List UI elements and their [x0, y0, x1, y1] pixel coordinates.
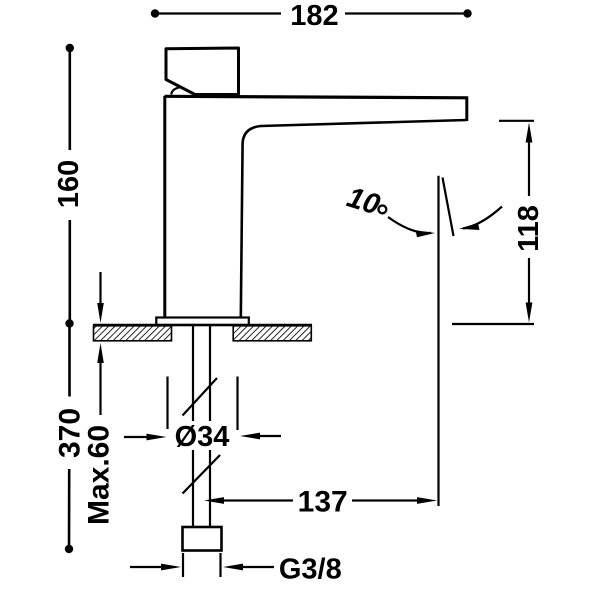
svg-text:118: 118: [513, 205, 545, 252]
water outlet reference line: [437, 176, 439, 506]
svg-text:G3/8: G3/8: [279, 554, 342, 586]
pipe break slash upper: [183, 378, 218, 416]
10 degree label: [343, 181, 391, 223]
faucet lever handle: [166, 48, 239, 95]
dimension G3/8 connector thread: [130, 553, 342, 586]
supply pipe: [193, 326, 210, 527]
faucet spout underside and body right edge: [241, 120, 467, 318]
dimension 137: [204, 486, 437, 519]
10 degree right arc arrow: [459, 207, 502, 231]
faucet body left edge: [163, 96, 166, 318]
svg-text:Ø34: Ø34: [175, 421, 230, 453]
svg-text:137: 137: [298, 486, 348, 519]
dimension 182 top: [151, 0, 472, 32]
dimension 370 left: [53, 328, 86, 554]
10 degree left arc arrow: [388, 217, 435, 237]
dimension 160 left: [53, 44, 85, 328]
countertop right hatched section: [233, 326, 311, 341]
faucet body top line: [165, 96, 469, 98]
faucet spout right edge: [465, 97, 468, 122]
dimension Max.60 counter thickness: [82, 272, 115, 525]
dimension 118 right: [452, 121, 545, 324]
dimension O34 pipe diameter: [124, 377, 281, 454]
svg-text:160: 160: [53, 160, 85, 208]
svg-text:182: 182: [290, 0, 338, 32]
svg-text:Max.60: Max.60: [82, 425, 115, 525]
countertop top line: [93, 324, 312, 327]
countertop left hatched section: [94, 326, 172, 341]
pipe end connector: [183, 527, 222, 551]
10 degree slanted stream line: [443, 178, 454, 237]
pipe break slash lower: [183, 455, 221, 494]
faucet base flange: [156, 318, 249, 326]
